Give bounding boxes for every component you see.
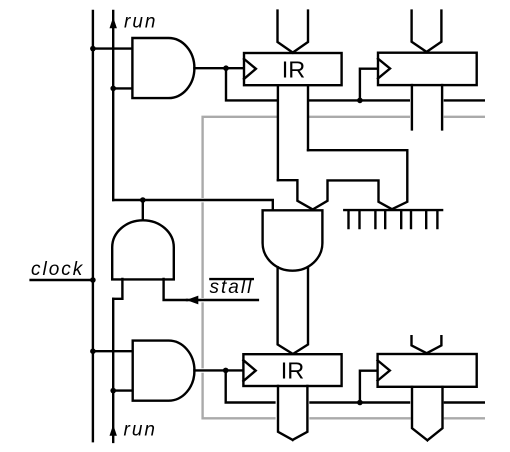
logic block decode (down and-gate shape) xyxy=(263,210,323,270)
wire IR4 clock riser xyxy=(360,69,378,101)
wire AND2 output to IR2 clock xyxy=(194,369,243,371)
pin IR3 clock triangle xyxy=(378,360,390,380)
register IR4 box xyxy=(378,53,477,85)
node AND1 input 1 tap xyxy=(90,46,96,52)
wire IR3 clock riser xyxy=(360,371,378,403)
wire AND2 input 1 from clock xyxy=(93,350,133,352)
bus IR3 output pointed end xyxy=(412,387,443,440)
bus IR3 input funnel xyxy=(412,336,442,353)
pin IR4 clock triangle xyxy=(378,59,390,79)
wire bottom clock rail segments xyxy=(311,401,484,403)
bus decode output arrow into IR2 xyxy=(278,267,308,354)
register IR3 box xyxy=(378,354,477,387)
bus IR1 input funnel xyxy=(278,11,309,53)
node IR3 clock tap xyxy=(357,400,363,406)
svg-text:run: run xyxy=(124,12,157,33)
bus split right outer edge xyxy=(308,150,407,209)
node AND2 input 1 tap xyxy=(90,348,96,354)
node AND2 input 2 tap xyxy=(110,388,116,394)
bus IR4 output lines xyxy=(412,85,442,129)
wire clock vertical rail xyxy=(92,11,94,441)
wire top clock rail segments xyxy=(310,99,484,101)
wire run upper vertical xyxy=(112,11,114,200)
svg-text:IR: IR xyxy=(282,56,306,82)
bus IR2 output pointed end xyxy=(278,386,307,440)
bus split left outer edge xyxy=(278,180,313,209)
wire AND1 input 2 from run xyxy=(113,87,132,89)
wire AND3 left input jog xyxy=(113,279,122,299)
comb control signals symbol xyxy=(344,210,442,228)
bus IR1 output right line xyxy=(307,85,309,150)
wire clock branch down and right xyxy=(226,68,277,100)
arrowhead stall (points left) xyxy=(186,296,198,305)
arrowhead run up (bottom) xyxy=(110,425,117,436)
svg-text:IR: IR xyxy=(281,357,305,383)
bus IR4 input funnel xyxy=(412,11,442,52)
node clock branch at 226 xyxy=(223,65,229,71)
wire clock label stub xyxy=(31,279,93,281)
wire AND3 output to logic and run line xyxy=(113,200,273,210)
wire stall input xyxy=(187,299,258,301)
node AND3 output junction xyxy=(140,197,146,203)
wire AND2 input 2 from run xyxy=(113,389,133,391)
pin IR1 clock triangle xyxy=(244,59,256,79)
register IR1 box xyxy=(244,53,342,85)
wire run lower vertical xyxy=(112,299,114,442)
node AND1 input 2 tap xyxy=(110,86,116,92)
and-gate AND1 xyxy=(132,38,194,98)
wire bottom clock branch down xyxy=(226,370,275,402)
node IR4 clock tap xyxy=(357,98,363,104)
wire AND3 output stub xyxy=(142,200,144,220)
svg-text:clock: clock xyxy=(31,259,84,280)
bus split inner edge xyxy=(313,180,392,209)
pin IR2 clock triangle xyxy=(243,360,255,381)
svg-text:stall: stall xyxy=(210,277,254,298)
wire AND1 output to IR1 clock xyxy=(194,67,244,69)
and-gate AND3 (upward) xyxy=(112,220,174,279)
and-gate AND2 xyxy=(133,341,195,401)
svg-text:run: run xyxy=(124,420,157,441)
stage boundary gray box xyxy=(203,117,484,419)
node bottom clock branch xyxy=(223,368,229,374)
wire AND1 input 1 from clock xyxy=(93,47,132,49)
register IR2 box xyxy=(243,354,341,386)
label stall overline xyxy=(210,278,252,280)
node clock junction xyxy=(90,277,96,283)
wire AND3 right input jog xyxy=(164,279,187,300)
arrowhead run up (top) xyxy=(110,17,117,28)
bus IR1 output left line xyxy=(277,85,279,180)
